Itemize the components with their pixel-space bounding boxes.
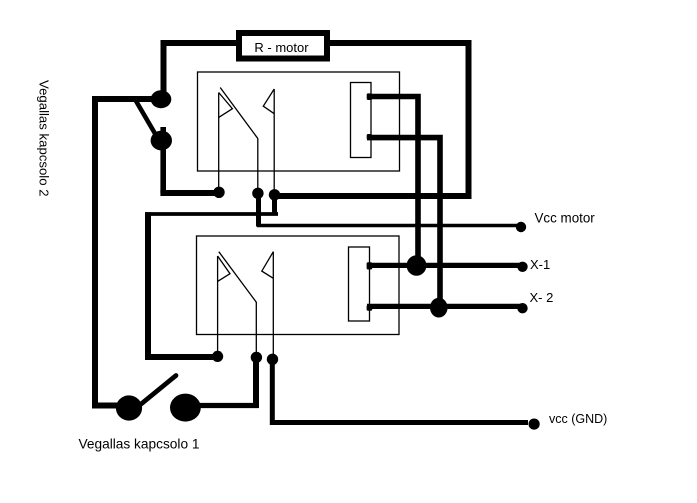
svg-text:Vegallas kapcsolo 2: Vegallas kapcsolo 2 [36,80,51,197]
svg-text:Vcc motor: Vcc motor [535,211,596,226]
svg-text:X- 2: X- 2 [530,290,554,305]
svg-text:X-1: X-1 [530,257,550,272]
svg-text:Vegallas kapcsolo 1: Vegallas kapcsolo 1 [79,437,200,452]
svg-text:R - motor: R - motor [254,40,309,55]
svg-text:vcc (GND): vcc (GND) [549,412,607,426]
